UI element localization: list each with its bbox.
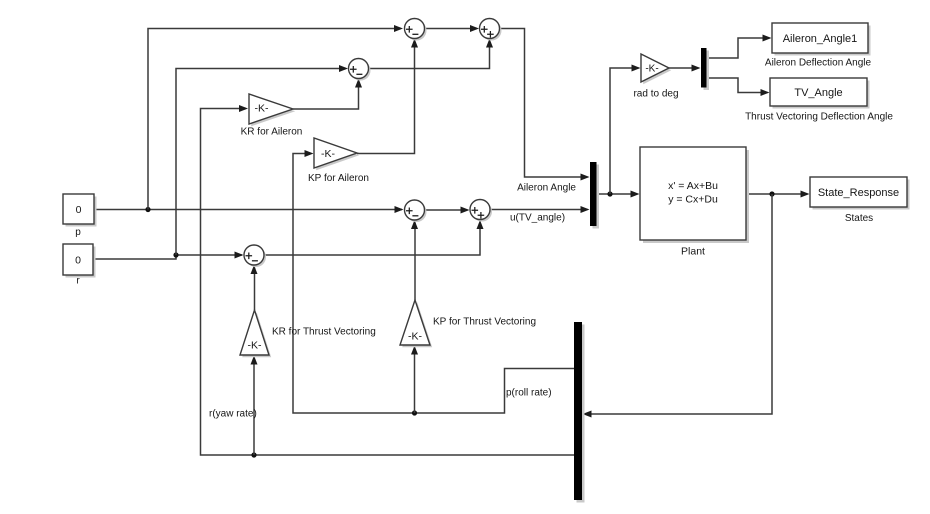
svg-text:p: p — [75, 227, 81, 238]
node mux output junction — [607, 191, 612, 196]
svg-text:r(yaw rate): r(yaw rate) — [209, 409, 257, 420]
wire sum S6 to sum S5 — [264, 220, 484, 255]
gain rad to deg — [633, 54, 678, 100]
wire r branch up to sum S3 — [176, 65, 348, 255]
wire KR for Thrust Vectoring to sum S6 — [251, 265, 258, 310]
svg-text:State_Response: State_Response — [818, 187, 899, 199]
gain KR for Aileron — [241, 94, 303, 138]
svg-text:u(TV_angle): u(TV_angle) — [510, 213, 565, 224]
demux after rad-to-deg — [701, 48, 709, 90]
svg-text:States: States — [845, 213, 873, 224]
svg-text:TV_Angle: TV_Angle — [794, 87, 842, 99]
svg-text:Plant: Plant — [681, 246, 705, 258]
wire rad-to-deg gain to demux — [669, 65, 701, 72]
svg-text:-K-: -K- — [645, 64, 658, 75]
wire sum S2 to mux port1 (Aileron Angle) — [500, 29, 590, 181]
wire mux to Plant — [597, 191, 640, 198]
wire demux out1 to Aileron_Angle1 — [707, 35, 772, 59]
sum S6 — [244, 245, 266, 267]
outport State_Response — [810, 177, 910, 224]
svg-text:KP for Thrust Vectoring: KP for Thrust Vectoring — [433, 317, 536, 328]
node r branch junction — [173, 252, 178, 257]
wire p constant to sum S4 — [94, 206, 404, 213]
sum S3 — [349, 59, 371, 81]
wire branch up to KP for Thrust Vectoring — [411, 346, 418, 414]
Plant state-space block — [640, 147, 749, 258]
svg-text:KP for Aileron: KP for Aileron — [308, 173, 369, 184]
svg-text:-K-: -K- — [255, 103, 270, 115]
wire demux3 r(yaw rate) out to KR for Aileron — [201, 105, 575, 455]
wire demux out2 to TV_Angle — [707, 78, 770, 96]
svg-text:-K-: -K- — [248, 340, 263, 352]
wire KP for Thrust Vectoring to sum S4 — [411, 220, 418, 300]
constant p — [63, 194, 97, 238]
wire KP for Aileron to sum S1 — [357, 39, 418, 154]
svg-text:y = Cx+Du: y = Cx+Du — [668, 193, 718, 205]
wire r constant to sum S6 — [93, 252, 244, 260]
node label p(roll rate) — [506, 388, 552, 399]
gain KP for Thrust Vectoring — [400, 300, 536, 347]
svg-text:p(roll rate): p(roll rate) — [506, 388, 552, 399]
wire demux3 p(roll rate) out to KP for Aileron — [293, 150, 574, 413]
sum S5 — [470, 200, 492, 222]
gain KR for Thrust Vectoring — [240, 310, 376, 357]
node label Aileron Angle — [517, 183, 576, 194]
svg-text:0: 0 — [75, 255, 81, 267]
wire KR for Aileron to sum S3 — [293, 79, 362, 110]
sum S2 — [480, 19, 502, 41]
node r yaw-rate branch junction — [251, 452, 256, 457]
node p branch junction — [145, 207, 150, 212]
sum S4 — [405, 200, 427, 222]
wire sum S1 to sum S2 — [425, 25, 480, 32]
wire branch up to rad-to-deg gain — [610, 65, 641, 195]
svg-text:-K-: -K- — [321, 148, 336, 160]
mux before Plant — [590, 162, 599, 229]
constant r — [63, 244, 96, 287]
wire sum S3 to sum S2 — [369, 39, 494, 69]
node p roll-rate branch junction — [412, 410, 417, 415]
node label u(TV_angle) — [510, 213, 565, 224]
wire Plant to State_Response — [746, 191, 810, 198]
wire branch up to KR for Thrust Vectoring — [251, 356, 258, 456]
wire sum S4 to sum S5 — [425, 207, 470, 214]
outport Aileron_Angle1 — [765, 23, 872, 69]
wire sum S5 to mux port2 (u TV_angle) — [490, 206, 590, 213]
svg-text:Thrust Vectoring Deflection An: Thrust Vectoring Deflection Angle — [745, 112, 893, 123]
node label r(yaw rate) — [209, 409, 257, 420]
svg-text:Aileron Deflection Angle: Aileron Deflection Angle — [765, 58, 872, 69]
svg-text:Aileron_Angle1: Aileron_Angle1 — [783, 33, 858, 45]
svg-text:-K-: -K- — [408, 331, 423, 343]
svg-text:KR for Thrust Vectoring: KR for Thrust Vectoring — [272, 327, 376, 338]
svg-text:rad to deg: rad to deg — [633, 89, 678, 100]
svg-text:KR for Aileron: KR for Aileron — [241, 127, 303, 138]
gain KP for Aileron — [308, 138, 369, 184]
outport TV_Angle — [745, 78, 893, 123]
sum S1 — [405, 19, 427, 41]
wire states feedback down to demux3 — [583, 194, 773, 418]
demux states feedback — [574, 322, 585, 503]
svg-text:0: 0 — [76, 204, 82, 216]
wire p branch up to sum S1 — [148, 25, 403, 210]
svg-text:x' = Ax+Bu: x' = Ax+Bu — [668, 180, 718, 192]
node states feedback junction — [769, 191, 774, 196]
svg-text:Aileron Angle: Aileron Angle — [517, 183, 576, 194]
